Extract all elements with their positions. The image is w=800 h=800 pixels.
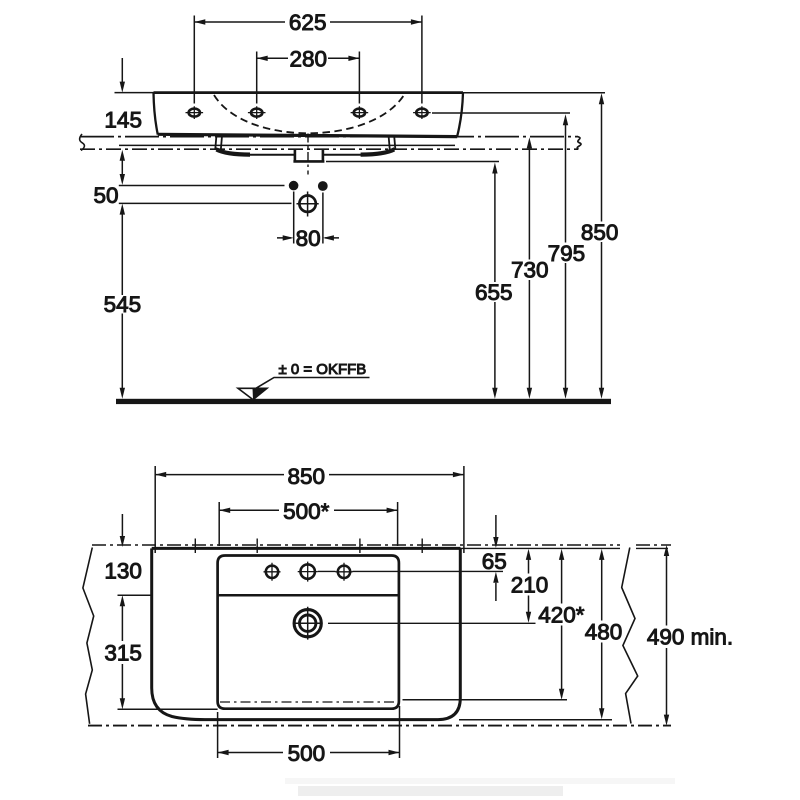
- dim 315: [121, 606, 123, 699]
- basin top edge: [154, 91, 464, 94]
- wall line plan dash-dot: [92, 544, 671, 546]
- tap hole line (203.4 level): [119, 202, 292, 204]
- plan top edge extension right: [461, 547, 669, 549]
- basin right edge: [457, 93, 463, 137]
- svg-text:500*: 500*: [283, 499, 330, 524]
- svg-text:490 min.: 490 min.: [647, 625, 733, 650]
- dim 420*: [561, 560, 563, 690]
- svg-text:280: 280: [290, 47, 328, 72]
- dim 65: [495, 515, 497, 537]
- mixer hole plan: [294, 610, 321, 637]
- tap hole symbol front: [299, 196, 315, 212]
- dim 145 arrow top: [121, 58, 123, 82]
- drain center line: [307, 134, 309, 175]
- dim 480: [601, 560, 603, 709]
- basin left edge: [154, 93, 158, 135]
- bowl interior dash-dot: [220, 701, 395, 703]
- right trap wing: [322, 148, 394, 155]
- wall line upper dash-dot: [80, 136, 578, 138]
- dim 130 arrow top: [121, 514, 123, 536]
- bowl rim line: [218, 594, 399, 597]
- hidden bowl arc dashed: [214, 95, 404, 133]
- wall break zigzag left: [83, 548, 94, 724]
- plan bottom edge extension: [459, 719, 612, 721]
- hole 4 level line: [432, 112, 570, 114]
- plan floor dash-dot: [88, 725, 671, 727]
- left trap wing: [216, 148, 294, 155]
- fixing hole 1: [186, 106, 204, 119]
- svg-text:545: 545: [104, 292, 142, 317]
- dim 50 bottom arrow + 545 line: [121, 214, 123, 388]
- svg-text:80: 80: [296, 226, 321, 251]
- dim 490 min: [666, 556, 668, 716]
- tap hole left plan: [264, 563, 281, 581]
- dim 280 extension lines: [257, 52, 360, 104]
- dim 850 plan: [155, 474, 464, 476]
- dim 500*: [219, 509, 397, 511]
- svg-text:795: 795: [548, 241, 586, 266]
- faint cropped watermark bar: [285, 778, 675, 784]
- dim 80 extension lines: [294, 192, 323, 244]
- tap hole right plan: [336, 563, 353, 581]
- basin bottom edge: [158, 134, 457, 136]
- svg-text:480: 480: [585, 620, 623, 645]
- fixing dot right: [318, 181, 328, 191]
- svg-text:130: 130: [104, 559, 142, 584]
- left overflow leg: [215, 136, 222, 150]
- dim 500: [218, 752, 400, 754]
- fixing hole 2: [248, 106, 266, 119]
- dim 80: [277, 237, 339, 239]
- svg-text:315: 315: [104, 641, 142, 666]
- svg-text:850: 850: [288, 464, 326, 489]
- bowl bottom level line (420 target): [403, 699, 568, 701]
- plan outer outline: [152, 548, 461, 719]
- dim 795 line: [565, 125, 567, 388]
- bowl front ext line left (315 target): [118, 708, 218, 710]
- datum symbol OKFFB: [238, 388, 267, 399]
- basin top edge extension right: [463, 92, 605, 94]
- dim 500 ext lines: [218, 706, 400, 758]
- svg-text:420*: 420*: [538, 603, 585, 628]
- svg-text:50: 50: [93, 183, 118, 208]
- wall band right break: [577, 137, 581, 150]
- dim 145 arrow bottom / 50 upper arrow pair: [121, 160, 123, 174]
- svg-text:210: 210: [511, 573, 549, 598]
- rim ext line left: [118, 594, 152, 596]
- svg-text:655: 655: [475, 280, 513, 305]
- dim 655 line: [494, 173, 496, 388]
- fixing hole 3: [351, 106, 369, 119]
- right overflow leg: [389, 136, 396, 150]
- wall line lower dash-dot: [80, 148, 578, 150]
- wall band left hook: [80, 134, 85, 151]
- svg-text:65: 65: [482, 549, 507, 574]
- dim 625: [194, 21, 422, 23]
- dim 730 line: [528, 148, 530, 388]
- svg-text:145: 145: [104, 107, 142, 132]
- plan top edge: [152, 547, 461, 550]
- dim 850 plan ext lines: [155, 466, 464, 553]
- wall break zigzag right: [622, 548, 638, 724]
- fixing dots line (185.5 level): [119, 185, 285, 187]
- dim 625 extension lines: [194, 16, 422, 104]
- svg-text:± 0 = OKFFB: ± 0 = OKFFB: [278, 361, 366, 378]
- dim 210: [528, 560, 530, 613]
- svg-text:730: 730: [511, 258, 549, 283]
- drain box: [293, 150, 324, 162]
- floor line: [116, 399, 611, 404]
- dim 850 line: [601, 104, 603, 388]
- fixing dot left: [289, 181, 299, 191]
- basin rear bottom line (145 target): [119, 144, 455, 146]
- trap bottom line (655 target): [326, 161, 499, 163]
- dim 500* ext lines: [219, 502, 397, 546]
- left ext line at basin top: [115, 92, 154, 94]
- mixer hole level line: [328, 622, 536, 624]
- tap hole middle plan: [298, 562, 318, 582]
- dim 280: [257, 57, 360, 59]
- fixing hole 4: [413, 106, 431, 119]
- tap hole level line plan: [318, 570, 503, 572]
- datum leader: [253, 378, 370, 391]
- fixing ticks on top edge: [195, 539, 422, 554]
- svg-text:625: 625: [289, 10, 327, 35]
- inner bowl outline: [218, 556, 399, 709]
- svg-text:500: 500: [288, 741, 326, 766]
- svg-text:850: 850: [581, 220, 619, 245]
